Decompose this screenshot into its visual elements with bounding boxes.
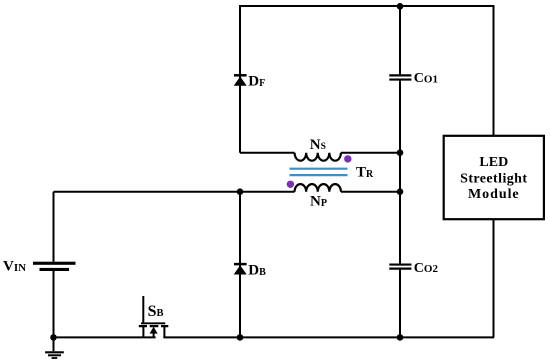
svg-text:Module: Module — [468, 187, 520, 202]
svg-text:VIN: VIN — [3, 259, 26, 275]
svg-text:NP: NP — [310, 194, 327, 210]
svg-text:TR: TR — [356, 165, 374, 181]
svg-text:Streetlight: Streetlight — [460, 172, 527, 187]
svg-text:CO1: CO1 — [414, 71, 438, 86]
svg-text:DB: DB — [248, 263, 266, 279]
svg-text:SB: SB — [148, 303, 164, 320]
svg-text:DF: DF — [248, 74, 265, 90]
svg-text:NS: NS — [310, 137, 326, 153]
svg-text:LED: LED — [479, 155, 508, 170]
svg-text:CO2: CO2 — [414, 261, 439, 276]
